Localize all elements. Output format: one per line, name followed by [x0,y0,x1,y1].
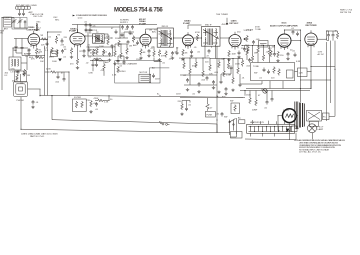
resistor R37 det cluster [227,62,230,69]
svg-text:115V: 115V [176,94,181,96]
svg-text:33K: 33K [272,47,276,49]
label speaker [283,110,289,112]
box B plus small rect right [298,68,308,77]
svg-text:PAD: PAD [13,49,18,52]
capacitor C17 [292,30,295,35]
wire lower left runs [45,72,69,96]
resistor R58 above fuse [206,98,210,111]
label changer extra [118,67,160,81]
label record changer [117,63,137,66]
wire antenna bus [2,18,28,91]
resistor R35 det cluster [218,61,221,68]
svg-text:PHONO: PHONO [118,71,126,73]
svg-text:SW: SW [224,117,227,119]
svg-text:47K: 47K [161,56,165,58]
resistor R53 enclosure [278,69,281,76]
ground T3b [171,57,174,60]
resistor R28 [209,64,212,71]
resistor R41 audio cluster [246,49,249,56]
label T3 [154,26,169,32]
capacitor C59 above phono [17,70,20,75]
resistor R47 below V6 extra [270,50,273,57]
capacitor C51 top cluster [89,28,92,33]
label changer left [112,75,117,77]
capacitor C66 interlock cluster [185,107,188,112]
wire shield feed vertical [87,32,90,48]
wire below bus mid [95,96,110,101]
ground below R7 [76,66,79,69]
capacitor C39 det cluster [220,80,223,85]
wire V1 to T1 [13,48,28,70]
box motor inside changer [139,74,151,83]
svg-text:150K: 150K [246,95,251,97]
lamp pilot light [308,124,317,133]
resistor R25 [189,68,192,75]
ground below V3b [147,54,150,57]
box AVC rect small [51,51,58,57]
label filter caps [326,31,338,33]
transformer T2 1st IF box [93,34,105,43]
resistor R45 audio cluster [268,49,271,56]
capacitor C21 filter [332,33,335,38]
label gang bottom [13,49,18,52]
capacitor C34 mid top [115,30,118,35]
box small right of heater [292,126,298,132]
ground V4a [181,57,184,60]
wire switch leads [230,118,237,137]
label left mid cluster [86,61,105,75]
svg-text:10K: 10K [40,61,44,63]
svg-text:ON SW: ON SW [246,30,253,32]
svg-text:115V: 115V [155,79,160,81]
label between V1 osc [41,37,52,47]
label T3 bottom [155,56,172,63]
wire field coil leads [300,69,335,116]
capacitor C42 det cluster [239,83,242,88]
label V6 bottom [280,50,293,58]
capacitor C9 [111,44,114,49]
transformer T1 osc coil box [9,57,21,70]
capacitor C28 [198,82,201,87]
capacitor C26 changer [152,74,155,79]
svg-text:455 KC: 455 KC [90,53,97,55]
label below bus mid [104,99,113,104]
resistor R3 [55,37,58,44]
capacitor C4 below V1 [28,48,31,53]
capacitor C1 [18,12,21,17]
tube V4 12BA6 IF amplifier 2 [183,32,194,49]
label IF1 bottom text [5,73,9,78]
svg-text:1M: 1M [254,53,257,55]
svg-text:4.7K: 4.7K [112,75,117,77]
capacitor C14 below V4 [190,50,193,55]
label below tube1 extra [27,51,44,64]
wire V3 plate to T3 [146,29,183,38]
svg-text:LAMP: LAMP [318,128,324,131]
svg-text:470K: 470K [195,32,200,34]
svg-text:HEATERS 12V: HEATERS 12V [250,121,265,124]
svg-text:FILTER: FILTER [74,97,82,99]
label tube V2 [69,27,77,32]
label tube V3 [139,18,147,26]
label V7 below [318,52,325,56]
wire below IF2 extra [154,47,177,62]
label B plus tick [157,94,181,96]
label volume [237,30,251,34]
resistor R43 audio cluster [257,47,260,54]
label tube V4 [183,20,191,25]
capacitor C10 [108,52,111,57]
label C33 [216,114,220,116]
wire center runs [180,58,243,97]
tube V1 12BE6 converter [28,31,40,49]
wire zigzag marks below shield [92,58,103,61]
antenna coil L1 box [16,6,31,9]
resistor R4 [51,47,54,54]
svg-text:AC DC: AC DC [318,53,325,56]
label motor [140,72,148,74]
wire gang bottom runs [14,39,28,54]
label mid right [130,34,138,48]
svg-text:1M: 1M [129,46,132,48]
label near V2 left [87,33,92,47]
svg-text:SW: SW [254,73,257,75]
label T4 [205,25,212,27]
resistor R51 above phono [23,69,26,76]
svg-text:PART NO 754-1: PART NO 754-1 [30,135,45,138]
svg-text:AUDIO OUTPUT AMPLIFIER: AUDIO OUTPUT AMPLIFIER [270,24,298,27]
resistor R44 audio cluster [262,54,265,61]
svg-text:OSC: OSC [11,68,16,70]
label AC interlock [159,121,162,124]
ground center c [212,86,215,89]
capacitor C12 below V3 [148,49,151,54]
resistor R10 mid cluster [102,49,105,56]
ground below C8 [82,54,85,57]
svg-text:50C5: 50C5 [282,23,288,25]
resistor R19 below V6 [277,51,280,58]
ground T3a [158,58,161,61]
svg-text:12BE6 12BA6 12BA6 12AT6 50: 12BE6 12BA6 12BA6 12AT6 50C5 35W4 [21,133,58,136]
box output section enclosure [251,63,295,81]
ground below R1 [35,55,38,58]
capacitor C41 det cluster [230,66,233,71]
label AVC left cluster [24,53,41,60]
svg-text:OSC: OSC [36,22,41,24]
wire V6 top caps [284,30,300,102]
wire alignment arrow [226,18,228,25]
svg-text:MOTOR: MOTOR [140,72,148,74]
svg-text:SPKR: SPKR [283,110,289,112]
ground V5b [237,56,240,59]
capacitor C11 [127,40,130,45]
wire enclosure runs [240,72,312,89]
label tube V1 [27,27,44,37]
loop antenna block [4,17,12,27]
label mid lower cluster [112,46,132,68]
capacitor C2 [22,12,25,17]
capacitor C20 filter [327,33,330,38]
resistor R26 [195,61,198,68]
capacitor C6 [61,39,64,44]
resistor R55 below IF2 [153,50,156,57]
capacitor C18 [296,32,299,37]
svg-text:AVC: AVC [105,61,110,64]
resistor R39 det cluster [237,67,240,74]
resistor R27 [202,70,205,77]
label below V6 extra [268,48,301,63]
resistor R50 left cluster [37,56,44,59]
resistor R22 [90,100,93,107]
svg-text:AC: AC [238,117,241,120]
label antenna section values [29,11,44,18]
label T3 top extra [170,52,178,59]
box B lower network [73,99,87,112]
label R15 [195,32,200,34]
svg-text:KC: KC [5,75,8,77]
resistor R9 mid cluster [96,48,99,55]
wire into V3 [120,32,140,38]
capacitor C54 screen cluster [131,25,134,30]
label above fuse [210,108,213,110]
capacitor C62 enclosure [267,70,270,75]
capacitor C55 between V1 and osc [46,42,49,47]
capacitor C37 mid lower [117,59,120,64]
label R1 value [25,50,43,59]
label phono jack [17,100,25,102]
label phono cap [36,102,40,104]
box around C5 R2 [15,71,27,82]
wire rectifier output runs [246,31,338,121]
node B plus bus [40,95,245,132]
label tube V7 [306,22,317,28]
tube V5 12AT6 det AVC [229,32,241,50]
box heater filament board [247,124,295,133]
label cluster values [45,47,67,64]
capacitor C44 audio cluster [248,58,251,63]
resistor R32 mid lower [114,50,117,57]
label above phono [16,75,31,81]
svg-text:DET AVC: DET AVC [230,22,239,25]
node heater bus bottom [21,97,296,140]
label V3 bottom [136,47,155,62]
capacitor C5 [23,72,26,77]
resistor R24 center lower network [183,62,186,69]
label box B [74,97,82,99]
ground V6b [286,57,289,60]
wire heater board leads [251,120,299,137]
svg-text:456 KC: 456 KC [222,24,229,26]
svg-text:MODELS 754 & 756: MODELS 754 & 756 [114,8,163,14]
capacitor C53 screen cluster [126,25,129,30]
wire det row extensions [180,75,217,85]
label switch box [230,101,233,103]
capacitor C46 enclosure [263,68,266,73]
capacitor C30 [212,80,215,85]
resistor R29 right lower [249,97,252,104]
box switch body lower [231,132,243,139]
note top-right corner part numbers [340,9,353,14]
label mid top cluster [90,25,128,40]
svg-text:22K: 22K [61,45,65,47]
svg-text:470K: 470K [192,66,197,68]
label mid screen text [120,20,129,24]
label B plus small rect [299,73,304,75]
ground below V3a [139,57,142,60]
label C16 [256,39,261,41]
resistor R30 [255,99,258,106]
svg-text:PHONO: PHONO [17,100,25,102]
capacitor C60 left mid cluster [92,63,95,68]
label lower mid [94,98,99,111]
capacitor C32 [271,97,274,102]
wire det cluster runs [210,59,243,83]
svg-text:1ST IF: 1ST IF [90,50,97,52]
svg-text:3RD IF: 3RD IF [205,25,212,27]
capacitor C57 gang bottom [21,46,24,51]
svg-text:AVC: AVC [24,53,29,56]
tube V3 12BA6 2nd IF [140,32,151,49]
label V5 bottom [232,48,246,56]
svg-text:100K: 100K [52,61,57,63]
label faint part numbers under bus [21,133,58,139]
capacitor C29 [206,76,209,81]
capacitor C36 mid top [129,31,132,36]
svg-text:OSC 5-28: OSC 5-28 [33,16,43,18]
ground V5a [227,58,230,61]
box output transformer [307,110,322,126]
svg-text:FUSE: FUSE [207,114,213,116]
resistor R5 [56,49,59,56]
wire audio cluster runs [242,46,275,63]
resistor R12 below T3 [158,50,161,57]
label V2 bottom values [64,47,90,66]
svg-text:AC: AC [159,121,162,124]
svg-text:THE TUNER: THE TUNER [216,14,228,16]
wire leader to notes [312,133,314,140]
box tuning gang outline [12,18,27,30]
trimmer capacitor C3 [24,20,26,24]
resistor R6 below V2 [70,48,73,55]
transformer T5 output windings [295,102,305,129]
resistor R8 right of T2 [107,38,110,45]
svg-text:220K: 220K [46,69,51,71]
svg-text:22K: 22K [41,45,45,47]
resistor R1 below V1 [35,48,38,55]
label tube V6 [270,23,298,28]
label loop antenna [4,18,10,31]
label right lower [246,95,268,112]
resistor R54 below bus [97,99,104,102]
label enclosure bits [253,66,275,80]
label alignment note 456KC [216,14,229,26]
svg-text:2ND IF: 2ND IF [162,26,169,28]
node grid bus between V1 V2 [40,32,62,96]
box IF shield mid [88,47,113,56]
label near volume extra [246,30,253,32]
capacitor C45 audio cluster [273,52,276,57]
svg-text:IF AMP: IF AMP [139,23,147,26]
wire antenna box leads [20,5,24,11]
box small fuse lower [206,111,216,117]
resistor R21 lower left cluster [50,71,57,74]
capacitor C58 mid right [136,41,139,46]
svg-text:SEC: SEC [55,20,60,22]
svg-text:AC: AC [152,67,155,70]
ground V4b [190,55,193,58]
svg-text:ADJ: ADJ [103,51,107,54]
resistor R15 right of V4 [196,34,199,41]
label osc coil value [34,28,42,33]
wire speaker leads [278,116,298,140]
capacitor C56 gang bottom [15,45,18,50]
svg-text:1.2K: 1.2K [299,73,304,75]
resistor R49 mid right [132,36,135,43]
resistor R40 det cluster [241,60,244,67]
box switch small [239,120,245,124]
svg-text:AVC: AVC [133,44,138,47]
capacitor C8 below V2 [83,49,86,54]
capacitor C61 left mid cluster [95,63,98,68]
ground lower mid [89,110,92,113]
capacitor C49 top cluster [89,23,92,28]
capacitor C24 [63,77,66,82]
capacitor C64 below IF2 [176,51,179,56]
capacitor C27 [186,78,189,83]
label below T4 [197,47,213,58]
label T2 [91,30,99,34]
label V4 bottom [185,47,197,55]
capacitor C25 [95,102,98,107]
label R8 [106,36,111,38]
label external antenna text [16,4,37,7]
resistor R14 below V4 [182,49,185,56]
node long vertical AVC bus [217,46,218,132]
svg-text:1M: 1M [27,75,30,77]
ground interlock [180,113,183,116]
resistor R33 mid lower [120,52,123,59]
ground mid lower a [113,62,116,65]
ground det c [231,89,234,92]
resistor R31 mid [118,40,121,47]
variable capacitor C1B tuning gang [18,19,23,24]
wire right lower runs [240,89,310,101]
svg-text:CONVERTER: CONVERTER [27,29,41,31]
potentiometer R17 volume control [244,35,249,42]
label interlock [178,101,192,107]
label field coil [323,117,326,119]
note bottom service text [294,139,346,154]
resistor R48 between V1 and osc [41,38,48,41]
oscillator coil L2 [36,24,38,31]
svg-text:TONE: TONE [253,66,259,68]
junction dots extra sprinkle [2,17,312,134]
wire left mid runs [90,61,108,76]
resistor R42 audio cluster [251,55,254,62]
ground center a [186,88,189,91]
svg-text:IF AMP: IF AMP [69,30,77,33]
ground below V2 [70,56,73,59]
wire phono leads [21,74,41,96]
capacitor C40 det cluster [225,87,228,92]
variable capacitor C1A tuning gang [12,19,17,24]
capacitor C47 below V6 extra [294,53,297,58]
capacitor C52 screen cluster [121,25,124,30]
svg-text:MEG: MEG [49,57,54,59]
svg-text:150K: 150K [235,64,240,66]
label alignment arrow note [76,14,108,19]
label below IF2 extra [151,48,184,65]
